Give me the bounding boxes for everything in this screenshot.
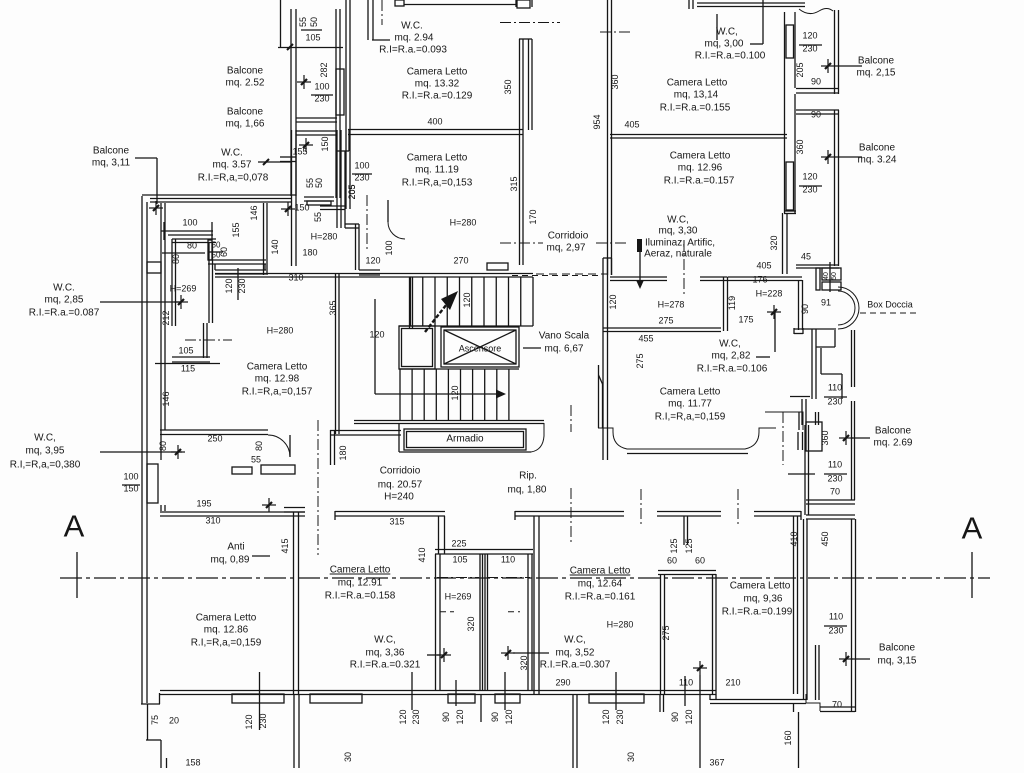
svg-text:Camera Letto: Camera Letto xyxy=(330,565,391,576)
svg-text:Iluminaz, Artific,: Iluminaz, Artific, xyxy=(645,238,715,249)
wall anti top xyxy=(160,430,290,457)
node wc352 xyxy=(501,635,611,688)
svg-text:360: 360 xyxy=(820,430,830,445)
node wc336 xyxy=(350,635,451,671)
wall top center xyxy=(368,0,404,40)
node 282 xyxy=(319,62,329,77)
svg-text:mq. 3.24: mq. 3.24 xyxy=(858,155,897,166)
svg-text:146: 146 xyxy=(249,205,259,220)
svg-text:320: 320 xyxy=(519,655,529,670)
svg-text:Camera Letto: Camera Letto xyxy=(670,151,731,162)
wall corridor left top xyxy=(330,430,401,465)
svg-text:Ascensore: Ascensore xyxy=(459,344,502,354)
svg-text:H=228: H=228 xyxy=(756,289,783,299)
svg-text:mq, 3,00: mq, 3,00 xyxy=(705,39,744,50)
node Anti label xyxy=(211,498,276,566)
svg-text:Camera Letto: Camera Letto xyxy=(407,67,468,78)
svg-text:230: 230 xyxy=(827,474,842,484)
svg-text:Camera Letto: Camera Letto xyxy=(570,566,631,577)
svg-text:55: 55 xyxy=(313,212,323,222)
node wc285 dims xyxy=(155,284,232,374)
svg-text:230: 230 xyxy=(828,626,843,636)
svg-text:Camera Letto: Camera Letto xyxy=(667,78,728,89)
svg-text:110: 110 xyxy=(501,555,515,565)
svg-text:60: 60 xyxy=(219,247,229,257)
svg-text:195: 195 xyxy=(196,499,211,509)
svg-text:70: 70 xyxy=(830,487,840,497)
node Armadio xyxy=(399,423,544,452)
svg-text:155: 155 xyxy=(292,147,307,157)
svg-text:mq. 11.77: mq. 11.77 xyxy=(668,399,712,410)
svg-text:360: 360 xyxy=(795,139,805,154)
wall wc357 xyxy=(264,130,297,275)
node 100-230 balc xyxy=(297,75,333,104)
svg-text:275: 275 xyxy=(635,353,645,368)
svg-text:230: 230 xyxy=(354,173,369,183)
node balc269 dims xyxy=(820,383,913,497)
svg-text:Balcone: Balcone xyxy=(93,146,130,157)
wall left outer xyxy=(142,196,147,704)
node dims right xyxy=(270,161,381,283)
svg-text:230: 230 xyxy=(314,94,329,104)
svg-text:A: A xyxy=(962,511,983,546)
svg-text:R.I.=R,a,=0,078: R.I.=R,a,=0,078 xyxy=(198,173,269,184)
wall xyxy=(296,118,337,122)
node room 12.98 xyxy=(242,326,313,398)
node balc324 dims xyxy=(795,110,822,195)
node WC 2.85 xyxy=(29,283,188,319)
svg-text:410: 410 xyxy=(417,547,427,562)
svg-text:55: 55 xyxy=(298,17,308,27)
node bottom dims 3 xyxy=(441,680,465,725)
wall stairs bottom xyxy=(354,421,544,424)
svg-text:W.C,: W.C, xyxy=(667,215,689,226)
svg-text:mq, 1,66: mq, 1,66 xyxy=(226,119,265,130)
svg-text:mq, 1,80: mq, 1,80 xyxy=(508,485,547,496)
node CL 12.96 xyxy=(664,151,735,187)
svg-text:R.I.=R,a,=0,153: R.I.=R,a,=0,153 xyxy=(402,178,473,189)
svg-text:210: 210 xyxy=(725,678,740,688)
svg-text:R.I.=R.a.=0.158: R.I.=R.a.=0.158 xyxy=(325,591,396,602)
node CL 13.14 xyxy=(624,78,730,130)
svg-text:360: 360 xyxy=(610,74,620,89)
node dim 365 xyxy=(161,300,338,406)
svg-text:170: 170 xyxy=(528,209,538,224)
svg-text:160: 160 xyxy=(783,730,793,745)
svg-text:mq, 12.64: mq, 12.64 xyxy=(578,579,623,590)
svg-text:290: 290 xyxy=(555,678,570,688)
wall 954 xyxy=(592,0,632,275)
svg-text:205: 205 xyxy=(347,184,357,199)
svg-text:225: 225 xyxy=(451,539,466,549)
node WC 3.57 xyxy=(198,148,292,184)
node bottom dims 4 xyxy=(490,672,514,725)
svg-text:30: 30 xyxy=(343,752,353,762)
svg-text:176: 176 xyxy=(752,275,767,285)
wall balc315 xyxy=(789,519,856,712)
wall balc215 xyxy=(785,10,840,94)
node bottom dims 1 xyxy=(244,672,268,730)
wall 11.77 left xyxy=(599,365,603,428)
wall stairs top xyxy=(368,263,607,277)
svg-text:H=280: H=280 xyxy=(450,218,477,228)
svg-text:80: 80 xyxy=(158,441,168,451)
svg-text:Balcone: Balcone xyxy=(227,66,264,77)
svg-text:R.I,=R,a,=0,380: R.I,=R,a,=0,380 xyxy=(10,460,81,471)
wall T2 xyxy=(657,512,721,566)
wall balc324 xyxy=(783,94,840,274)
svg-text:mq. 2.69: mq. 2.69 xyxy=(874,438,913,449)
svg-text:W.C,: W.C, xyxy=(374,635,396,646)
svg-text:120: 120 xyxy=(802,172,817,182)
svg-text:R.I.=R.a.=0.307: R.I.=R.a.=0.307 xyxy=(540,660,611,671)
svg-text:180: 180 xyxy=(338,445,348,460)
svg-text:R.I.=R.a.=0.199: R.I.=R.a.=0.199 xyxy=(722,607,793,618)
svg-text:H=280: H=280 xyxy=(311,232,338,242)
node Rip xyxy=(508,471,547,496)
svg-text:Camera Letto: Camera Letto xyxy=(660,387,721,398)
svg-text:120: 120 xyxy=(244,714,254,729)
svg-text:W.C.: W.C. xyxy=(401,21,423,32)
wall right of wc357 xyxy=(337,130,380,275)
wall 400 xyxy=(348,130,523,135)
node dim 120-230 xyxy=(224,268,247,300)
svg-text:H=280: H=280 xyxy=(607,620,634,630)
svg-text:Balcone: Balcone xyxy=(227,107,264,118)
svg-text:R.I.=R.a.=0.161: R.I.=R.a.=0.161 xyxy=(565,592,636,603)
wall top balcony 3.11 xyxy=(142,195,296,215)
svg-text:Corridoio: Corridoio xyxy=(380,466,421,477)
svg-text:60: 60 xyxy=(667,556,677,566)
svg-text:R.I.=R.a.=0.100: R.I.=R.a.=0.100 xyxy=(695,51,766,62)
node dim 100 xyxy=(161,218,213,241)
svg-text:R.I.=R.a.=0.129: R.I.=R.a.=0.129 xyxy=(402,91,473,102)
svg-text:Balcone: Balcone xyxy=(875,426,912,437)
wall stairleft xyxy=(336,274,340,434)
svg-text:45: 45 xyxy=(801,252,811,262)
svg-text:110: 110 xyxy=(829,612,843,622)
svg-text:H=269: H=269 xyxy=(445,592,472,602)
node box doccia boxes xyxy=(816,262,841,292)
svg-text:mq, 3,36: mq, 3,36 xyxy=(366,648,405,659)
svg-text:115: 115 xyxy=(181,364,195,374)
node bottom dims 5 xyxy=(601,672,625,725)
svg-text:mq, 13,14: mq, 13,14 xyxy=(674,90,719,101)
svg-text:120: 120 xyxy=(365,256,380,266)
svg-text:120: 120 xyxy=(369,330,384,340)
wall xyxy=(280,157,296,162)
svg-text:30: 30 xyxy=(626,752,636,762)
svg-text:mq. 6,67: mq. 6,67 xyxy=(545,344,584,355)
svg-text:mq, 2,85: mq, 2,85 xyxy=(45,295,84,306)
stairs walk line xyxy=(375,299,506,401)
wall h278 top xyxy=(610,240,728,295)
svg-text:320: 320 xyxy=(769,235,779,250)
wire section line xyxy=(60,577,990,579)
node bottom dims 6 xyxy=(670,676,694,725)
wall balc315 top xyxy=(806,500,855,519)
node CL 12.64 xyxy=(565,566,671,641)
svg-text:mq. 12.98: mq. 12.98 xyxy=(255,374,300,385)
svg-text:150: 150 xyxy=(123,484,138,494)
wall threshold xyxy=(208,260,266,274)
wall small xyxy=(304,197,345,210)
svg-text:Box Doccia: Box Doccia xyxy=(867,300,913,310)
svg-text:40: 40 xyxy=(823,272,830,280)
svg-text:mq. 3.57: mq. 3.57 xyxy=(213,160,252,171)
wall top right xyxy=(689,0,833,14)
svg-text:75: 75 xyxy=(150,715,160,725)
svg-text:275: 275 xyxy=(661,625,671,640)
wall bottom main xyxy=(160,691,716,695)
svg-text:R.I.=R.a.=0.321: R.I.=R.a.=0.321 xyxy=(350,660,421,671)
node section A left xyxy=(64,509,85,599)
svg-text:Vano Scala: Vano Scala xyxy=(539,331,590,342)
svg-text:350: 350 xyxy=(503,79,513,94)
svg-text:365: 365 xyxy=(328,300,338,315)
svg-text:90: 90 xyxy=(811,77,821,87)
svg-text:mq. 2.94: mq. 2.94 xyxy=(395,33,434,44)
svg-text:Aeraz, naturale: Aeraz, naturale xyxy=(644,249,712,260)
node corridoio 297 xyxy=(500,209,628,253)
svg-text:mq, 3,11: mq, 3,11 xyxy=(92,158,131,169)
svg-text:mq. 2.52: mq. 2.52 xyxy=(226,78,265,89)
svg-text:Rip.: Rip. xyxy=(519,471,537,482)
node CL 12.91 xyxy=(325,565,396,602)
svg-text:100: 100 xyxy=(182,218,197,228)
svg-text:100: 100 xyxy=(354,161,369,171)
wall 11.77 niche xyxy=(598,412,803,454)
svg-text:310: 310 xyxy=(205,516,220,526)
svg-text:mq. 12.86: mq. 12.86 xyxy=(204,625,249,636)
svg-text:Camera Letto: Camera Letto xyxy=(196,613,257,624)
svg-text:Anti: Anti xyxy=(227,542,244,553)
wall left inner xyxy=(161,203,165,511)
svg-text:405: 405 xyxy=(624,120,639,130)
node Balcone 2,15 xyxy=(821,56,896,79)
svg-text:105: 105 xyxy=(305,33,320,43)
svg-text:Balcone: Balcone xyxy=(879,643,916,654)
wall xyxy=(346,0,350,209)
svg-text:W.C.: W.C. xyxy=(53,283,75,294)
node 55-50 top xyxy=(298,17,322,43)
node 150 balc xyxy=(292,136,330,156)
svg-text:R.I,=R,a,=0,159: R.I,=R,a,=0,159 xyxy=(655,412,726,423)
node closet dims xyxy=(445,539,529,671)
node wc282 xyxy=(697,305,781,375)
svg-text:105: 105 xyxy=(178,346,193,356)
node plus150 xyxy=(281,202,310,216)
svg-text:90: 90 xyxy=(800,304,810,314)
svg-text:Camera Letto: Camera Letto xyxy=(730,581,791,592)
node box doccia xyxy=(800,287,920,329)
wall closets xyxy=(435,550,533,692)
svg-text:20: 20 xyxy=(169,716,179,726)
svg-text:155: 155 xyxy=(231,222,241,237)
node CL 12.86 xyxy=(191,613,262,649)
wall below balc324 xyxy=(769,235,811,261)
node Vano Scala xyxy=(523,331,590,355)
svg-text:100: 100 xyxy=(123,472,138,482)
wall left bottom step xyxy=(141,693,167,768)
wire closet doors xyxy=(437,578,530,612)
node balc315 dims xyxy=(824,612,917,710)
svg-text:230: 230 xyxy=(411,709,421,724)
svg-text:mq, 2,97: mq, 2,97 xyxy=(547,243,586,254)
svg-text:H=240: H=240 xyxy=(384,492,414,503)
svg-text:W.C.: W.C. xyxy=(221,148,243,159)
svg-text:110: 110 xyxy=(828,460,842,470)
svg-text:315: 315 xyxy=(389,517,404,527)
svg-text:205: 205 xyxy=(795,62,805,77)
stairs lower flight xyxy=(399,369,519,421)
wall stairwell left xyxy=(603,258,612,460)
svg-text:150: 150 xyxy=(320,136,330,151)
node WC 3.30 xyxy=(636,215,715,290)
node bottom dims 8 xyxy=(150,715,201,768)
wire xyxy=(278,0,343,50)
svg-text:50: 50 xyxy=(314,178,324,188)
svg-text:405: 405 xyxy=(756,261,771,271)
node section A right xyxy=(962,511,983,599)
wire dashdot door xyxy=(366,195,368,252)
svg-text:R.I=R.a.=0.093: R.I=R.a.=0.093 xyxy=(379,45,447,56)
svg-text:W.C,: W.C, xyxy=(716,27,738,38)
svg-text:400: 400 xyxy=(427,117,442,127)
wall xyxy=(296,131,337,135)
svg-text:120: 120 xyxy=(802,31,817,41)
svg-text:125: 125 xyxy=(684,538,694,553)
svg-text:R.I,=R,a,=0,159: R.I,=R,a,=0,159 xyxy=(191,638,262,649)
window sills bottom xyxy=(232,694,644,703)
window left xyxy=(122,464,158,503)
svg-text:90: 90 xyxy=(490,712,500,722)
svg-text:250: 250 xyxy=(207,434,222,444)
svg-text:R.I.=R.a.=0.106: R.I.=R.a.=0.106 xyxy=(697,364,768,375)
svg-text:230: 230 xyxy=(802,44,817,54)
node Balcone 3.24 xyxy=(821,143,897,166)
svg-text:90: 90 xyxy=(811,110,821,120)
svg-text:120: 120 xyxy=(398,709,408,724)
svg-text:320: 320 xyxy=(466,616,476,631)
svg-text:Camera Letto: Camera Letto xyxy=(247,362,308,373)
svg-text:H=269: H=269 xyxy=(170,284,197,294)
svg-text:50: 50 xyxy=(309,17,319,27)
svg-text:90: 90 xyxy=(670,712,680,722)
svg-text:mq. 20.57: mq. 20.57 xyxy=(378,480,423,491)
svg-text:120: 120 xyxy=(601,709,611,724)
svg-text:455: 455 xyxy=(638,334,653,344)
svg-text:mq, 0,89: mq, 0,89 xyxy=(211,555,250,566)
wall 13.14 bottom xyxy=(610,135,787,139)
node Balcone 1.66 xyxy=(226,107,265,130)
svg-text:50: 50 xyxy=(831,272,838,280)
svg-text:A: A xyxy=(64,509,85,544)
svg-text:W.C,: W.C, xyxy=(719,339,741,350)
wall 350 xyxy=(500,0,560,265)
window top xyxy=(404,0,530,8)
svg-text:120: 120 xyxy=(224,278,234,293)
wall bottom cols xyxy=(294,694,664,768)
node Corridoio 20.57 xyxy=(378,466,423,503)
wall T3 xyxy=(754,511,801,520)
node CL 13.32 xyxy=(402,67,473,127)
svg-text:Camera Letto: Camera Letto xyxy=(407,153,468,164)
svg-text:100: 100 xyxy=(384,240,394,255)
wall stair stub xyxy=(410,277,413,328)
wall balc315 bottom xyxy=(794,516,856,768)
svg-text:275: 275 xyxy=(658,316,673,326)
svg-text:105: 105 xyxy=(452,555,467,565)
svg-text:R.I.=R.a.=0.155: R.I.=R.a.=0.155 xyxy=(660,103,731,114)
svg-text:315: 315 xyxy=(509,176,519,191)
wall h278 xyxy=(603,277,728,332)
svg-text:100: 100 xyxy=(314,82,329,92)
svg-text:mq. 12.96: mq. 12.96 xyxy=(678,163,723,174)
wall below doccia xyxy=(794,328,842,425)
node Balcone 2.52 xyxy=(226,66,265,89)
svg-text:mq, 3,95: mq, 3,95 xyxy=(26,446,65,457)
svg-text:282: 282 xyxy=(319,62,329,77)
wire dashdot corr xyxy=(317,420,319,555)
svg-text:110: 110 xyxy=(679,678,693,688)
node h228 room xyxy=(727,261,803,331)
node balc215 dims xyxy=(795,31,822,87)
svg-text:230: 230 xyxy=(615,709,625,724)
node anti dims xyxy=(158,434,295,475)
stairs upper flight xyxy=(399,277,533,326)
svg-text:91: 91 xyxy=(821,298,831,308)
node WC 2.94 xyxy=(379,21,447,56)
svg-text:H=280: H=280 xyxy=(267,326,294,336)
stairs landing xyxy=(399,326,435,369)
svg-text:mq, 12.91: mq, 12.91 xyxy=(338,578,383,589)
svg-text:80: 80 xyxy=(171,254,181,264)
svg-text:146: 146 xyxy=(161,391,171,406)
svg-text:R.I.=R.a.=0.087: R.I.=R.a.=0.087 xyxy=(29,308,100,319)
wall wc352 xyxy=(658,571,716,695)
svg-text:270: 270 xyxy=(453,256,468,266)
svg-text:H=278: H=278 xyxy=(658,300,685,310)
wire dashdot stairs xyxy=(570,405,572,542)
wall xyxy=(336,9,344,198)
svg-text:120: 120 xyxy=(462,292,472,307)
node dim 80s xyxy=(162,205,259,264)
svg-text:954: 954 xyxy=(592,114,602,129)
svg-text:230: 230 xyxy=(802,185,817,195)
svg-text:140: 140 xyxy=(270,239,280,254)
svg-text:158: 158 xyxy=(185,758,200,768)
svg-text:mq. 13.32: mq. 13.32 xyxy=(415,79,460,90)
svg-text:55: 55 xyxy=(251,455,261,465)
node bottom dims 2 xyxy=(398,672,421,725)
node stair dim 120 xyxy=(369,292,472,339)
node Balcone 3.11 xyxy=(92,146,157,205)
wall 12.64 divider xyxy=(515,511,624,694)
svg-text:110: 110 xyxy=(828,383,842,393)
node door arc 11.19 xyxy=(384,200,469,266)
svg-text:70: 70 xyxy=(832,700,842,710)
svg-text:W.C,: W.C, xyxy=(34,433,56,444)
stairs arrow up xyxy=(425,291,458,332)
svg-text:Corridoio: Corridoio xyxy=(548,231,589,242)
node CL 9.36 xyxy=(722,581,793,618)
wall wc285 xyxy=(172,239,216,362)
node WC 3.00 xyxy=(695,0,766,62)
wall anti bottom xyxy=(160,499,305,526)
node dims 9.36 xyxy=(679,661,741,768)
svg-text:125: 125 xyxy=(669,538,679,553)
